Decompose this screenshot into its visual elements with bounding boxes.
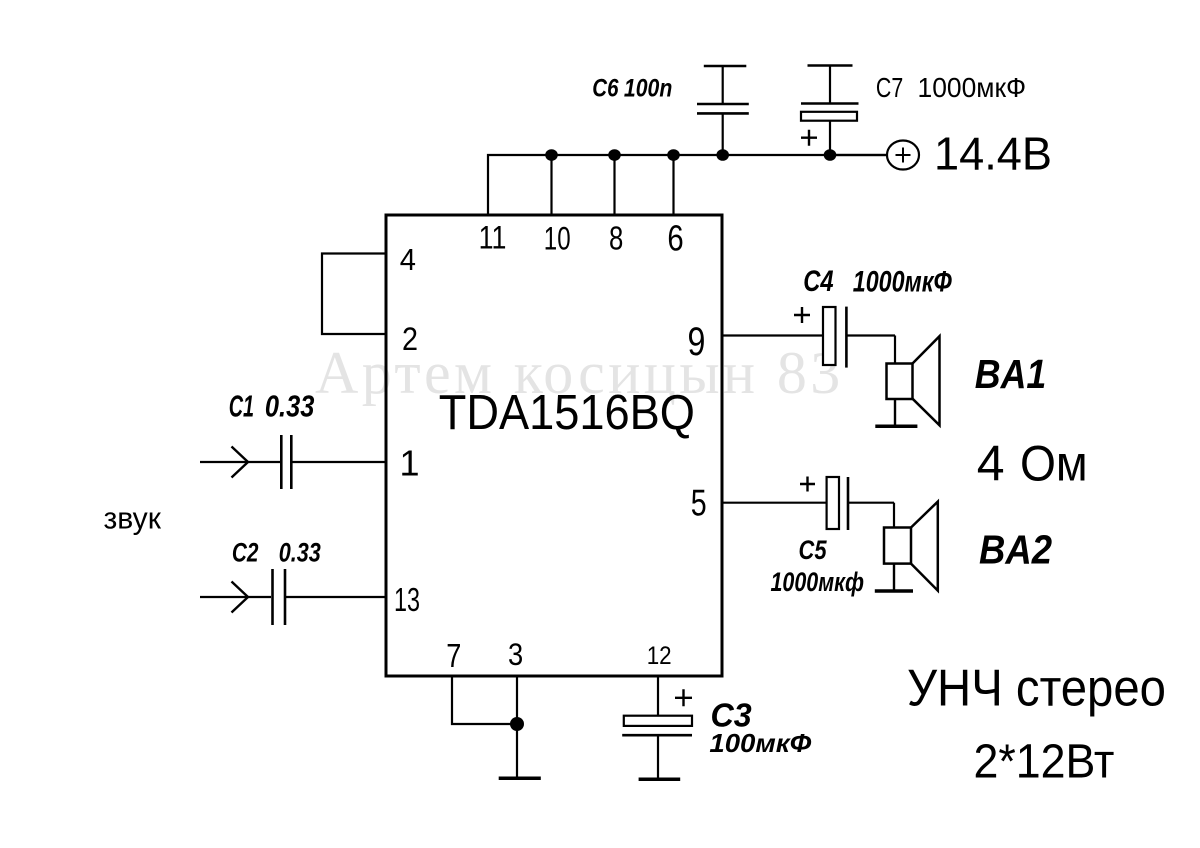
input arrow 2 xyxy=(232,582,249,613)
terminal plus sign xyxy=(896,148,911,163)
capacitor C4 polarity plus xyxy=(794,307,810,323)
capacitor C3 bottom plate xyxy=(622,734,692,737)
svg-text:0.33: 0.33 xyxy=(279,538,321,568)
capacitor C4 right plate xyxy=(845,307,848,368)
svg-text:C1: C1 xyxy=(229,390,254,424)
BA1 coil box xyxy=(887,364,913,400)
svg-text:1000мкФ: 1000мкФ xyxy=(853,266,952,299)
wire: pin 12 down to C3 xyxy=(657,677,659,716)
terminal circle xyxy=(887,141,919,170)
capacitor C3 polarity plus xyxy=(675,689,692,706)
IC U1 TDA1516BQ body xyxy=(386,215,722,676)
capacitor C7 1000mkF polarized xyxy=(801,66,859,161)
node: junction dot pin 6 xyxy=(667,149,680,161)
wire: pin 7 down and over to pin 3 xyxy=(452,677,517,724)
svg-text:2: 2 xyxy=(402,321,418,357)
svg-text:C5: C5 xyxy=(799,535,828,565)
ground C3 xyxy=(639,777,681,781)
ground pin 3 xyxy=(499,777,541,781)
C7 polarity plus xyxy=(801,130,817,146)
svg-text:100n: 100n xyxy=(624,75,672,103)
wire: bus to terminal xyxy=(830,154,887,156)
svg-text:8: 8 xyxy=(609,220,623,257)
svg-text:C7: C7 xyxy=(876,72,903,103)
speaker BA2 xyxy=(875,502,938,591)
node: junction dot pins 7-3 xyxy=(510,717,524,731)
svg-text:1: 1 xyxy=(400,443,420,484)
capacitor C1 left plate xyxy=(280,435,283,489)
C7 lower plate rect xyxy=(801,112,857,121)
wire: pin 10 to bus xyxy=(550,155,552,215)
capacitor C3 top plate rect xyxy=(624,716,692,726)
wire: pin 9 output xyxy=(722,334,823,336)
svg-text:Ом: Ом xyxy=(1020,436,1088,492)
node: junction dot pin 8 xyxy=(608,149,621,161)
speaker BA1 xyxy=(875,336,939,426)
svg-text:BA2: BA2 xyxy=(979,527,1052,573)
C7 upper plate xyxy=(801,102,859,105)
capacitor C2 left plate xyxy=(271,569,274,625)
svg-text:звук: звук xyxy=(104,500,162,535)
input arrow 1 xyxy=(232,447,249,478)
svg-text:4: 4 xyxy=(400,242,416,277)
svg-text:BA1: BA1 xyxy=(975,351,1047,397)
C6 lower plate xyxy=(697,112,749,115)
capacitor C4 left plate rect xyxy=(823,307,836,365)
svg-text:TDA1516BQ: TDA1516BQ xyxy=(439,386,695,440)
node: junction dot C6 xyxy=(716,149,729,161)
svg-text:3: 3 xyxy=(508,636,523,672)
svg-text:14.4В: 14.4В xyxy=(934,128,1052,180)
wire: pin 8 to bus xyxy=(613,155,615,215)
capacitor C5 right plate xyxy=(847,477,850,530)
node: junction dot C7 xyxy=(824,149,837,161)
svg-text:C2: C2 xyxy=(232,538,259,568)
C6 upper plate xyxy=(697,103,749,106)
wire: C6 lower stem xyxy=(722,113,724,155)
svg-text:10: 10 xyxy=(544,221,571,257)
svg-text:4: 4 xyxy=(977,436,1005,492)
svg-text:13: 13 xyxy=(394,581,420,618)
capacitor C5 left plate rect xyxy=(827,477,839,529)
ground BA1 xyxy=(875,425,917,429)
svg-text:УНЧ стерео: УНЧ стерео xyxy=(907,660,1166,718)
ground BA2 xyxy=(875,589,913,593)
wire: C3 to ground xyxy=(657,735,659,779)
capacitor C1 right plate xyxy=(290,435,293,489)
BA1 horn xyxy=(913,336,940,425)
svg-text:2*12Вт: 2*12Вт xyxy=(974,736,1115,789)
wire: pin 4 to pin 2 loop xyxy=(322,254,386,335)
wire: C6 upper stem xyxy=(722,66,724,104)
wire: input 1 to pin 1 xyxy=(200,461,280,463)
capacitor C6 100n xyxy=(697,66,749,161)
svg-text:6: 6 xyxy=(667,218,683,259)
svg-text:11: 11 xyxy=(479,220,507,256)
svg-text:C4: C4 xyxy=(803,265,834,298)
svg-text:5: 5 xyxy=(691,482,707,523)
wire: BA1 to ground xyxy=(894,399,896,426)
svg-text:100мкФ: 100мкФ xyxy=(709,728,812,758)
wire: pin 3 down to ground xyxy=(516,677,518,778)
BA2 coil box xyxy=(884,528,911,564)
C7 top bar xyxy=(808,64,853,66)
wire: C7 upper stem xyxy=(829,66,831,104)
svg-text:1000мкФ: 1000мкФ xyxy=(918,72,1027,103)
C6 top bar xyxy=(704,65,747,67)
BA2 horn xyxy=(911,502,938,591)
svg-text:9: 9 xyxy=(688,320,706,364)
svg-text:7: 7 xyxy=(446,637,461,674)
power terminal +14.4V xyxy=(830,141,919,170)
capacitor C5 polarity plus xyxy=(800,477,815,492)
wire: C7 lower stem xyxy=(829,121,831,155)
wire: BA2 to ground xyxy=(893,564,895,591)
svg-text:1000мкф: 1000мкф xyxy=(771,567,865,597)
svg-text:C6: C6 xyxy=(592,75,619,103)
capacitor C2 right plate xyxy=(284,569,287,625)
wire: pin 6 to bus xyxy=(672,155,674,215)
svg-text:0.33: 0.33 xyxy=(265,390,315,424)
wire: input 2 to pin 13 xyxy=(200,596,271,598)
wire: pin 5 output xyxy=(722,502,827,504)
svg-text:12: 12 xyxy=(647,642,672,670)
wire: top supply bus with pin 11 drop xyxy=(488,155,887,215)
node: junction dot pin 10 xyxy=(545,149,558,161)
